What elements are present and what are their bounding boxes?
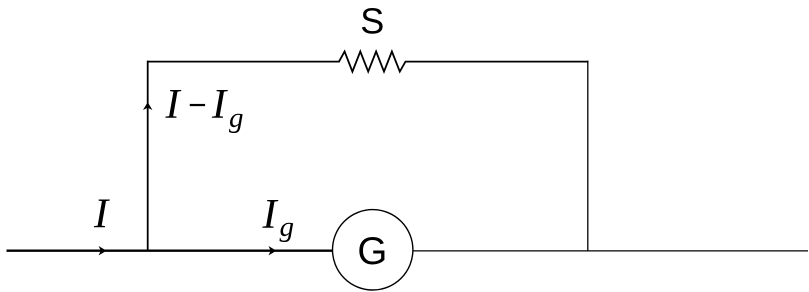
svg-text:g: g xyxy=(229,102,244,134)
svg-text:I: I xyxy=(211,81,228,128)
svg-text:−: − xyxy=(188,86,206,122)
svg-text:I: I xyxy=(262,191,279,238)
svg-text:I: I xyxy=(165,81,182,128)
svg-text:G: G xyxy=(357,230,387,273)
svg-text:I: I xyxy=(93,191,110,238)
svg-text:S: S xyxy=(360,1,384,42)
svg-text:g: g xyxy=(280,211,295,243)
